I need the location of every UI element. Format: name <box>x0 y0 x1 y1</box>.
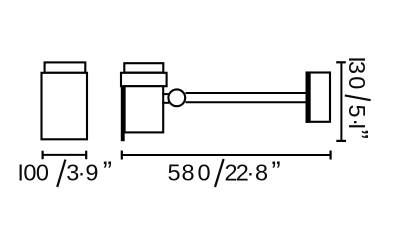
head collar <box>121 73 167 86</box>
svg-text:5: 5 <box>344 104 370 117</box>
bracket bar <box>121 80 125 141</box>
svg-text:8: 8 <box>255 160 268 186</box>
svg-text:8: 8 <box>181 160 194 186</box>
bottom dim right tick <box>330 151 332 160</box>
head cap <box>124 63 163 72</box>
arm bottom line <box>186 101 308 103</box>
svg-text:”: ” <box>343 130 374 139</box>
svg-text:0: 0 <box>344 76 370 89</box>
svg-text:5: 5 <box>167 160 180 186</box>
svg-text:·: · <box>78 160 86 186</box>
label 130/5.1" rotated <box>345 95 371 100</box>
left dim right tick <box>85 151 87 160</box>
wall plate thick bar <box>306 72 311 123</box>
cap rect <box>45 62 86 72</box>
arm top line <box>186 92 308 94</box>
left dim left tick <box>41 151 43 160</box>
svg-text:3: 3 <box>344 61 370 74</box>
label 580/22.8" <box>215 159 224 187</box>
vertical dim bottom tick <box>336 140 346 142</box>
head body <box>125 86 164 132</box>
left dimension line <box>43 154 87 156</box>
svg-text:9: 9 <box>85 160 98 186</box>
svg-text:”: ” <box>271 156 280 187</box>
body rect <box>42 73 88 140</box>
svg-text:0: 0 <box>23 160 36 186</box>
wall plate outline <box>307 73 330 122</box>
right vertical dimension line <box>340 62 342 141</box>
svg-text:0: 0 <box>197 160 210 186</box>
stub bottom line <box>162 102 169 104</box>
label 100/3.9" <box>57 160 65 187</box>
svg-text:·: · <box>246 160 254 186</box>
svg-text:I: I <box>344 123 370 130</box>
vertical dim top tick <box>336 61 346 63</box>
svg-text:0: 0 <box>36 160 49 186</box>
ball joint <box>168 89 185 106</box>
bottom dimension line <box>122 154 331 156</box>
svg-text:”: ” <box>103 156 112 187</box>
bottom dim left tick <box>121 151 123 160</box>
stub top line <box>162 93 169 95</box>
